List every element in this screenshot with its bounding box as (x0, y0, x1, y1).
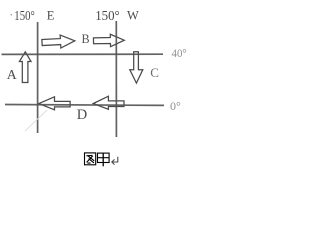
svg-text:A: A (7, 67, 17, 82)
meridian 150W (over arrows) (115, 21, 117, 137)
svg-text:150°: 150° (95, 8, 120, 23)
svg-text:40°: 40° (172, 46, 187, 60)
caption 图 (drawn glyph) (85, 153, 96, 165)
arrow D1 (left) (39, 97, 70, 110)
caption pilcrow ↵ (112, 157, 118, 165)
svg-text:W: W (127, 8, 139, 22)
svg-text:D: D (77, 107, 87, 123)
scan crease (faint diagonal) (25, 110, 47, 131)
arrow A (up) (19, 52, 31, 83)
svg-text:E: E (47, 8, 55, 22)
arrow B2 (right) (93, 34, 124, 47)
arrow B1 (right) (42, 34, 75, 49)
arrow C (down) (130, 52, 143, 83)
svg-text:B: B (82, 32, 90, 46)
parallel 40 (over arrows) (2, 53, 164, 55)
svg-text:0°: 0° (170, 99, 181, 113)
parallel 0 (over arrows) (5, 104, 164, 107)
caption 甲 (drawn glyph) (98, 153, 110, 166)
svg-text:C: C (150, 65, 159, 80)
speck left of 150°E (11, 14, 13, 16)
arrow D2 (left) (93, 96, 124, 109)
svg-text:150°: 150° (14, 8, 35, 23)
meridian 150E (over arrows) (37, 22, 39, 133)
